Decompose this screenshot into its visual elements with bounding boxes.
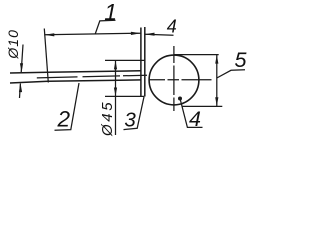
svg-text:5: 5 <box>235 48 248 72</box>
svg-text:4: 4 <box>189 107 201 131</box>
svg-text:3: 3 <box>124 109 136 132</box>
svg-text:4: 4 <box>167 17 177 37</box>
svg-text:Ø45: Ø45 <box>99 100 116 137</box>
svg-text:Ø10: Ø10 <box>5 29 21 59</box>
svg-text:2: 2 <box>57 107 71 132</box>
svg-text:1: 1 <box>104 0 117 25</box>
